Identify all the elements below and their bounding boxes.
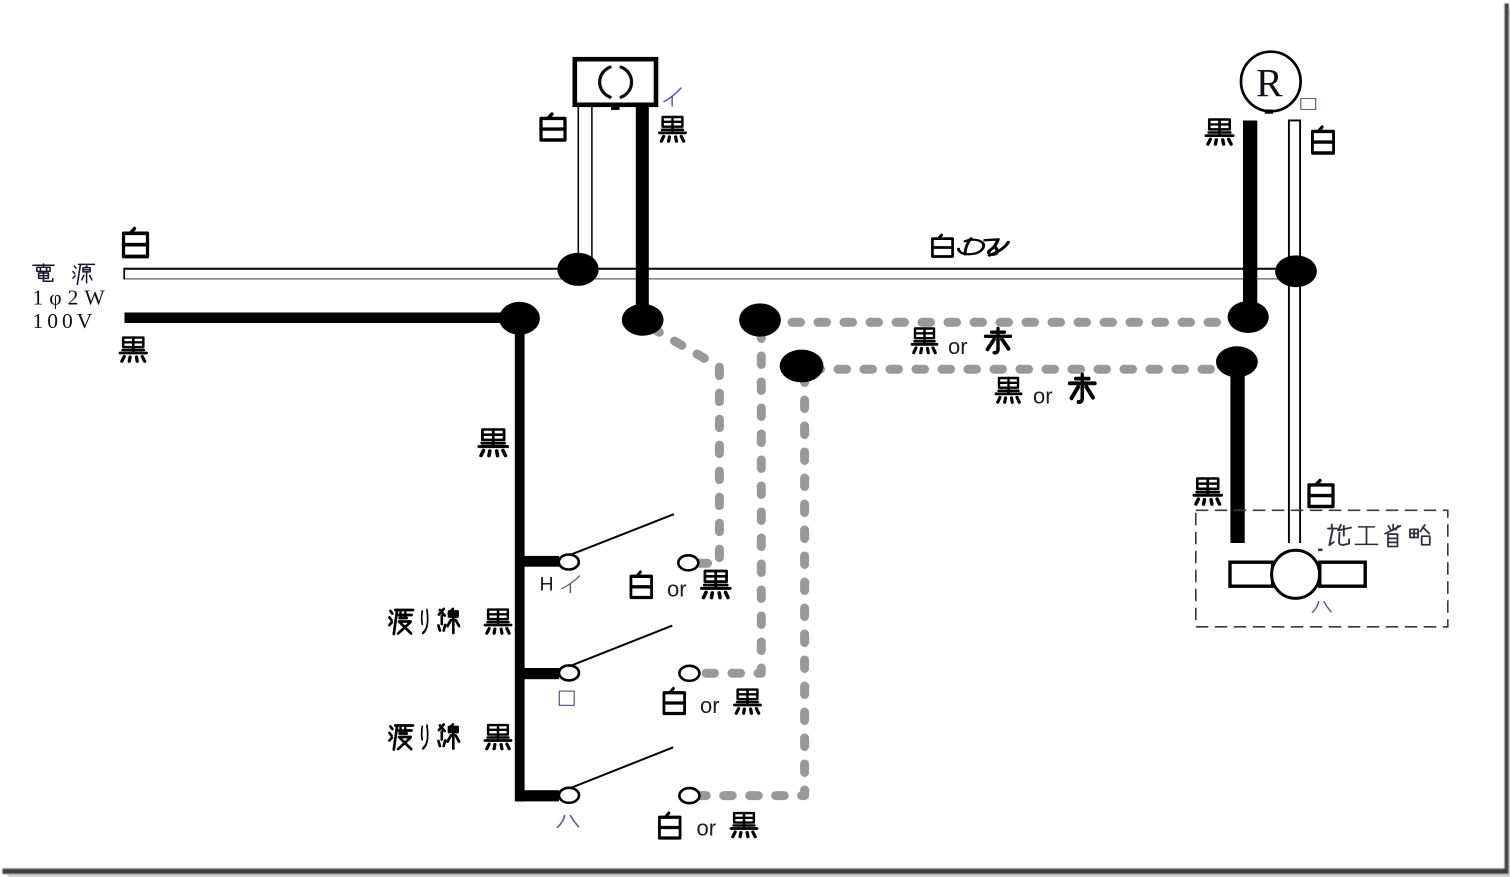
lamp box parentheses [600,67,632,97]
dashed wire: lamp node to switch i [652,328,719,563]
label: ha under ceiling device [1312,602,1331,613]
switch i lever [567,514,674,556]
dashed wire: node to switch ha [700,374,805,796]
svg-text:or: or [700,693,720,718]
label: watari-sen kuro 2 [389,726,413,750]
wire: white pair from R down into omitted box [1288,120,1301,543]
label: watari-sen kuro 1 [389,610,413,634]
frame shadow right [1509,9,1510,875]
small tick left of sekou text [1318,549,1323,552]
svg-text:R: R [1256,60,1283,105]
dashed wire: lower black-or-red run [812,365,1232,374]
label: power source den [33,264,54,281]
ceiling device right tab [1320,562,1365,586]
svg-text:or: or [948,334,968,359]
node on neutral line under lamp [557,253,598,286]
label: ro at R [1301,98,1316,109]
label: i at lamp [664,88,681,106]
label: kuro-or-aka upper [912,329,937,353]
wire: vertical black switch bus [515,318,525,802]
label: shiro bottom right [1309,481,1333,507]
receptacle R circle [1241,52,1301,112]
switch ro stub [515,668,559,679]
svg-text:100V: 100V [33,309,97,333]
node on neutral line right [1275,255,1317,287]
wire: white pair from lamp box down to neutral line [578,106,592,270]
label: shiro-nomi [932,235,952,257]
label: power source gen [73,264,95,284]
ceiling device circle [1272,550,1320,598]
label: kuro at lamp [660,117,686,141]
label: ro under switch ro [559,691,574,705]
switch i load terminal [678,555,698,570]
label: shiro-or-kuro 3 [659,813,680,838]
svg-text:or: or [697,816,717,841]
wire: black from lamp R down to node [1243,121,1257,318]
switch ro terminal [559,665,579,680]
switch ha lever [567,747,673,789]
label: kuro bottom right [1194,479,1222,505]
ceiling device left tab [1230,562,1273,586]
switch ro load terminal [679,666,699,681]
label: sekou shouryaku [1328,525,1351,546]
switch ha terminal [559,788,579,803]
node lamp black end [622,304,664,336]
label: kuro-or-aka lower [996,378,1021,402]
label: kuro source [120,338,147,362]
svg-text:or: or [1033,384,1053,409]
wire: black from lower-right node down into omitted box [1230,362,1244,543]
wire: horizontal black live line from source [125,313,520,324]
label: kuro right top [1206,120,1233,145]
node source corner [499,302,540,335]
node lower right [1216,346,1258,377]
label: shiro-or-kuro 2 [664,689,685,714]
switch ha stub [515,790,559,801]
dashed wire: upper black-or-red run [766,318,1242,327]
node R black end [1228,301,1269,333]
svg-text:or: or [667,577,687,602]
label: shiro-or-kuro 1 [631,572,652,598]
wire: horizontal white neutral line from source [124,268,1300,280]
switch i terminal [559,555,579,570]
label: shiro right top [1312,127,1333,153]
label: shiro at lamp [541,114,565,140]
svg-text:1φ2W: 1φ2W [33,286,111,310]
label: shiro top-left [124,229,148,257]
switch ha load terminal [679,788,699,803]
switch i stub [515,556,559,567]
lamp box symbol [575,59,656,105]
label: kuro mid bus [479,430,508,456]
wire: black from lamp box down to node [636,107,649,320]
R bottom tab [1265,110,1273,114]
svg-text:H: H [540,574,554,596]
switch ro lever [567,626,673,668]
omitted-construction dashed box [1196,510,1448,627]
frame shadow bottom [8,874,1510,877]
dashed wire: node to switch ro [700,330,761,673]
lamp box bottom tab [611,104,620,110]
label: ha under switch ha [557,816,578,828]
node upper dashed start [739,303,781,336]
frame border bottom [3,869,1509,874]
node lower dashed start [780,350,824,383]
